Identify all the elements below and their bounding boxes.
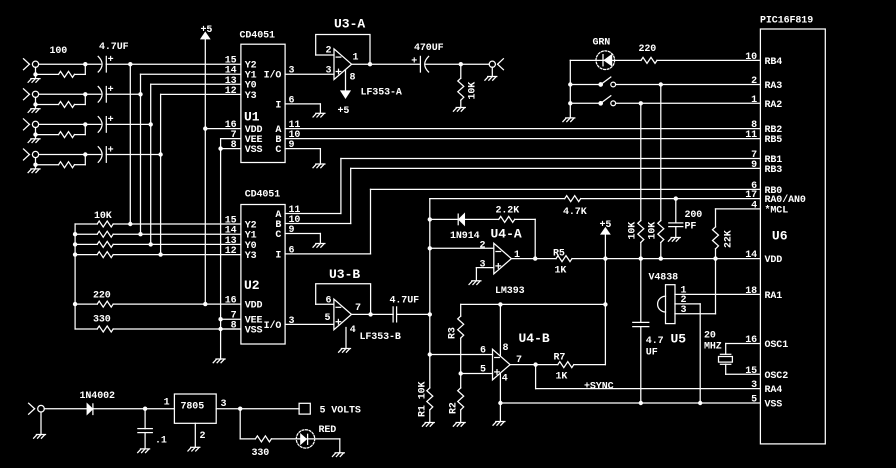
- capacitor 4.7UF input (row 3): [98, 115, 113, 132]
- wire row3 elbow to U1 Y0: [151, 83, 241, 85]
- node +SYNC tap: [533, 362, 537, 366]
- svg-text:U4-A: U4-A: [491, 227, 522, 242]
- wire 7805 out: [216, 408, 299, 410]
- wire 10K pullup RA3 vertical: [660, 85, 662, 259]
- node S2 to 10K: [639, 101, 643, 105]
- svg-text:+: +: [411, 57, 417, 68]
- svg-text:1: 1: [514, 250, 520, 261]
- resistor R7 1K: [554, 352, 574, 367]
- wire U5 pin3 to VDD: [675, 259, 716, 314]
- svg-text:VSS: VSS: [765, 400, 783, 411]
- wire U1 VSS: [221, 148, 241, 150]
- ic U6 PIC16F819: [760, 16, 825, 444]
- wire 330 row: [75, 328, 241, 330]
- svg-text:16: 16: [225, 296, 237, 307]
- connector output jack: [489, 59, 503, 77]
- ground J1: [28, 79, 40, 83]
- node feedback at output: [533, 256, 537, 260]
- wire U2 VEE stub: [221, 318, 241, 320]
- LED RED: [296, 425, 336, 448]
- op-amp U4-A LM393: [491, 227, 525, 298]
- wire MCL to 22K: [716, 209, 761, 259]
- svg-text:RA0/AN0: RA0/AN0: [765, 194, 806, 206]
- resistor R2: [449, 388, 464, 414]
- svg-text:4.7UF: 4.7UF: [390, 296, 420, 307]
- svg-text:15: 15: [745, 366, 757, 377]
- wire central bus vertical: [429, 199, 431, 423]
- svg-text:5: 5: [480, 365, 486, 376]
- wire +SYNC to RA4: [536, 365, 761, 389]
- wire U4-B pin8 power: [499, 304, 501, 356]
- capacitor 4.7UF input (row 2): [98, 85, 113, 102]
- svg-text:12: 12: [225, 246, 237, 257]
- wire J3 sleeve down: [35, 128, 37, 139]
- svg-text:RA3: RA3: [765, 81, 783, 92]
- svg-text:RB4: RB4: [765, 57, 783, 68]
- svg-text:14: 14: [745, 250, 757, 261]
- svg-text:LF353-B: LF353-B: [360, 332, 401, 343]
- node 10K bottom 2 at VDD rail: [659, 256, 663, 260]
- capacitor 4.7UF input (row 1): [98, 55, 113, 72]
- svg-text:1N914: 1N914: [450, 231, 480, 242]
- node 200PF tap: [674, 196, 678, 200]
- LED GRN: [593, 38, 615, 70]
- svg-text:3: 3: [289, 316, 295, 327]
- power +5 arrow top: [201, 25, 213, 304]
- svg-text:R1 10K: R1 10K: [418, 381, 429, 417]
- svg-text:10K: 10K: [648, 222, 659, 240]
- terminal 5 VOLTS: [299, 403, 361, 416]
- wire OSC2: [726, 364, 761, 374]
- node J4 shunt junction: [33, 163, 37, 167]
- svg-text:RB5: RB5: [765, 135, 783, 146]
- svg-text:4: 4: [502, 374, 508, 385]
- node rail junction: [73, 242, 77, 246]
- wire U4-A pin3 + ground stub: [476, 268, 493, 281]
- ground power jack: [34, 435, 46, 439]
- svg-text:LF353-A: LF353-A: [361, 88, 402, 99]
- svg-text:3: 3: [326, 66, 332, 77]
- wire U2 VSS stub: [221, 328, 241, 330]
- node pin8 at pullup wire: [498, 302, 502, 306]
- svg-text:VDD: VDD: [765, 255, 783, 266]
- wire row3 vertical: [150, 84, 152, 244]
- resistor 10K ladder 2: [97, 231, 113, 237]
- wire row4 elbow to U1 Y3: [161, 93, 241, 95]
- svg-text:UF: UF: [646, 348, 658, 359]
- wire J2 junction down to resistor row: [84, 94, 86, 104]
- capacitor 4.7 UF bypass: [633, 322, 664, 358]
- wire 220 row: [75, 303, 241, 305]
- capacitor 200PF: [669, 210, 703, 233]
- svg-text:RA1: RA1: [765, 291, 783, 302]
- node ladder row 1: [128, 222, 132, 226]
- svg-text:1N4002: 1N4002: [80, 391, 116, 402]
- svg-text:U6: U6: [772, 229, 788, 244]
- svg-text:U2: U2: [244, 278, 260, 293]
- resistor 100 (row 2): [59, 102, 75, 108]
- ground R2: [453, 423, 465, 427]
- wire to RED led: [240, 409, 340, 439]
- svg-text:1: 1: [751, 95, 757, 106]
- wire J1 tip to cap: [39, 63, 101, 65]
- svg-text:I/O: I/O: [264, 320, 282, 332]
- svg-text:220: 220: [93, 291, 111, 302]
- svg-text:3: 3: [289, 66, 295, 77]
- wire U4-B output: [510, 364, 605, 366]
- crystal 20MHZ: [704, 331, 732, 365]
- resistor 4.7K: [563, 196, 587, 218]
- wire cap to vertical (row 3): [106, 123, 150, 125]
- capacitor 4.7UF input (row 4): [98, 145, 113, 162]
- node +5 at U2 VDD (220 junction): [203, 302, 207, 306]
- svg-text:2: 2: [326, 46, 332, 57]
- wire GRN rail: [570, 60, 641, 118]
- node +5 at U4-B pullup wire: [603, 302, 607, 306]
- svg-text:6: 6: [480, 346, 486, 357]
- svg-text:10: 10: [745, 52, 757, 63]
- capacitor 470UF output: [411, 43, 443, 72]
- pin numbers U6: [745, 52, 757, 406]
- node S1 to 10K: [659, 82, 663, 86]
- svg-text:VSS: VSS: [245, 325, 263, 336]
- power +5 arrow mid: [600, 220, 612, 365]
- svg-text:+5: +5: [338, 106, 350, 117]
- pin numbers U2 right: [289, 205, 301, 327]
- wire row2 vertical: [140, 74, 142, 234]
- resistor 330 (U2 VSS): [93, 315, 113, 333]
- svg-text:8: 8: [350, 72, 356, 83]
- svg-text:MHZ: MHZ: [704, 342, 722, 353]
- diode 1N4002: [80, 391, 116, 415]
- resistor 10K pullup (RA2): [628, 221, 644, 243]
- connector J4 input jack: [24, 149, 39, 160]
- node pin4 at VSS wire: [498, 401, 502, 405]
- wire J2 sleeve down: [35, 97, 37, 108]
- svg-text:10K: 10K: [94, 211, 112, 222]
- svg-text:U1: U1: [244, 110, 260, 125]
- node row 4 tap: [158, 152, 162, 156]
- wire U4-A pin2: [430, 247, 494, 249]
- resistor 220 (U2 VDD): [93, 291, 113, 308]
- svg-text:R7: R7: [554, 352, 566, 363]
- node J2 main junction: [83, 92, 87, 96]
- wire to RA0/AN0: [430, 198, 761, 200]
- wire U2 I/O to U3-B pin5: [285, 323, 334, 325]
- node J3 shunt junction: [33, 132, 37, 136]
- ground U4-A pin 3: [469, 281, 481, 285]
- ground U2 pin C: [313, 244, 325, 248]
- svg-text:2.2K: 2.2K: [496, 206, 520, 217]
- svg-text:1: 1: [164, 398, 170, 409]
- node U4-A pin2 tap: [428, 246, 432, 250]
- node VSS U1 junction: [218, 146, 222, 150]
- node 10K tap: [459, 62, 463, 66]
- ground J2: [28, 109, 40, 113]
- node rail RA2: [568, 101, 572, 105]
- svg-text:2: 2: [480, 240, 486, 251]
- node row 1 tap: [128, 62, 132, 66]
- wire U3-A feedback loop: [316, 35, 370, 65]
- wire shunt resistor row 2: [36, 104, 86, 106]
- switch S1 (RA3): [570, 77, 760, 87]
- svg-text:RED: RED: [319, 425, 337, 436]
- ground R1: [422, 423, 434, 427]
- resistor 330 (RED): [252, 436, 272, 459]
- svg-text:220: 220: [639, 44, 657, 55]
- node rail at 220 row: [73, 302, 77, 306]
- wire VSS to ground: [220, 329, 222, 359]
- svg-text:VDD: VDD: [245, 301, 263, 312]
- svg-text:OSC1: OSC1: [765, 340, 789, 351]
- svg-text:I/O: I/O: [264, 70, 282, 82]
- svg-text:PF: PF: [685, 222, 697, 233]
- wire U3-B pin4 down: [345, 328, 347, 349]
- svg-text:RB3: RB3: [765, 165, 783, 176]
- wire U3-B output to cap: [352, 313, 394, 315]
- svg-text:RA2: RA2: [765, 100, 783, 111]
- wire 10K stub: [460, 64, 462, 107]
- resistor 220 (RB4): [639, 44, 658, 63]
- wire U2 B to RB3: [285, 168, 760, 223]
- wire U2 A to RB1: [285, 159, 760, 214]
- resistor 10K output load: [458, 78, 479, 100]
- resistor 100 (row 1): [50, 46, 75, 77]
- connector J1 input jack: [24, 59, 39, 70]
- node rail junction: [73, 252, 77, 256]
- ic U5 V4838 IR receiver: [649, 273, 687, 347]
- svg-text:9: 9: [289, 140, 295, 151]
- wire J1 sleeve down: [35, 67, 37, 78]
- node 10K bottom at VDD rail: [639, 256, 643, 260]
- wire row1 down to ladder: [129, 64, 131, 224]
- node 22K at VDD rail: [713, 256, 717, 260]
- svg-text:RA4: RA4: [765, 385, 783, 396]
- wire U3-A output: [352, 63, 421, 65]
- svg-text:6: 6: [289, 95, 295, 106]
- node J3 main junction: [83, 122, 87, 126]
- node VEE U2 junction: [218, 317, 222, 321]
- wire row4 vertical: [160, 94, 162, 254]
- svg-text:6: 6: [326, 296, 332, 307]
- wire shunt resistor row 4: [36, 164, 86, 166]
- svg-text:2: 2: [751, 76, 757, 87]
- svg-text:10K: 10K: [468, 82, 479, 100]
- svg-text:8: 8: [231, 321, 237, 332]
- wire U2 C to ground: [285, 234, 320, 244]
- resistor R1 10K: [418, 381, 433, 417]
- wire cap to vertical (row 4): [106, 154, 160, 156]
- svg-text:PIC16F819: PIC16F819: [760, 16, 813, 27]
- svg-text:1: 1: [353, 53, 359, 64]
- pin numbers U1 right: [289, 66, 301, 151]
- pin numbers U1 left: [225, 56, 237, 151]
- svg-text:200: 200: [685, 210, 703, 221]
- svg-text:1K: 1K: [555, 266, 567, 277]
- node U4-B input junction: [428, 312, 432, 316]
- resistor 10K ladder 1: [94, 211, 113, 227]
- svg-text:LM393: LM393: [495, 286, 525, 297]
- wire R2 chain: [460, 374, 462, 423]
- ground U1 pin I: [313, 113, 325, 117]
- op-amp U3-B LF353: [329, 267, 401, 343]
- svg-text:7: 7: [355, 303, 361, 314]
- svg-text:4: 4: [350, 325, 356, 336]
- wire U5 pin1 to RA1: [675, 293, 760, 295]
- node +5 at VDD rail: [603, 256, 607, 260]
- power +5 arrow at U3-A pin 8: [338, 70, 350, 117]
- svg-text:7: 7: [516, 355, 522, 366]
- svg-text:11: 11: [745, 130, 757, 141]
- ground 200PF: [668, 238, 680, 242]
- wire U1 VEE elbow: [221, 139, 241, 329]
- wire ladder row 1: [75, 223, 241, 225]
- node U5 pin2 at VSS: [698, 401, 702, 405]
- switch S2 (RA2): [570, 96, 760, 106]
- wire J2 tip to cap: [39, 93, 101, 95]
- svg-text:5: 5: [325, 313, 331, 324]
- ground U4-B pin 4: [493, 422, 505, 426]
- wire jack to diode: [44, 408, 87, 410]
- svg-text:R2: R2: [449, 402, 460, 414]
- svg-text:R3: R3: [448, 327, 459, 339]
- svg-text:OSC2: OSC2: [765, 371, 789, 382]
- node J1 shunt junction: [33, 72, 37, 76]
- node J4 main junction: [83, 152, 87, 156]
- svg-text:I: I: [275, 250, 281, 261]
- ground J3: [28, 139, 40, 143]
- wire bypass cap vertical: [640, 259, 642, 403]
- wire U1 I/O to U3-A pin3: [285, 73, 334, 75]
- svg-text:3: 3: [480, 259, 486, 270]
- wire J3 junction down to resistor row: [84, 124, 86, 134]
- capacitor 4.7UF coupling: [390, 296, 420, 322]
- connector J3 input jack: [24, 119, 39, 130]
- wire 10K pullup RA2 vertical: [640, 103, 642, 258]
- svg-text:4: 4: [751, 200, 757, 211]
- svg-text:C: C: [275, 145, 281, 156]
- svg-text:3: 3: [681, 305, 687, 316]
- connector power jack: [29, 403, 45, 434]
- svg-text:18: 18: [745, 286, 757, 297]
- svg-text:V4838: V4838: [649, 273, 679, 284]
- wire 470UF to out jack: [425, 63, 489, 65]
- svg-text:8: 8: [503, 343, 509, 354]
- svg-text:.1: .1: [155, 436, 167, 447]
- node ladder row 4: [158, 252, 162, 256]
- svg-text:8: 8: [231, 140, 237, 151]
- node U3-B output junction: [368, 312, 372, 316]
- op-amp U3-A LF353: [334, 17, 402, 99]
- svg-text:330: 330: [93, 315, 111, 326]
- wire left rail: [74, 224, 76, 329]
- wire diode to 7805: [93, 408, 174, 410]
- wire ladder row 4: [75, 254, 241, 256]
- wire U2 I to RB0: [285, 189, 760, 254]
- node U4-B pin6 tap: [428, 352, 432, 356]
- svg-text:*MCL: *MCL: [765, 205, 789, 217]
- wire ladder row 3: [75, 243, 241, 245]
- ground switch rail: [563, 118, 575, 122]
- svg-text:CD4051: CD4051: [240, 31, 276, 42]
- capacitor .1: [138, 429, 167, 447]
- node ladder row 3: [149, 242, 153, 246]
- wire ladder row 2: [75, 233, 241, 235]
- svg-text:C: C: [275, 230, 281, 241]
- ground 10K output: [453, 108, 465, 112]
- svg-text:100: 100: [50, 46, 68, 57]
- wire U4-B pin6: [430, 354, 493, 356]
- wire RED to ground: [339, 439, 341, 453]
- wire VSS rail: [500, 402, 760, 404]
- resistor 10K ladder 3: [97, 241, 113, 247]
- regulator 7805: [174, 394, 216, 423]
- svg-text:7805: 7805: [181, 402, 205, 413]
- op-amp U4-B LM393: [493, 331, 550, 380]
- node U4-B pin5: [459, 371, 463, 375]
- svg-text:GRN: GRN: [593, 38, 611, 49]
- node 4.7UF at VSS: [639, 401, 643, 405]
- svg-text:10K: 10K: [628, 222, 639, 240]
- op U2 CD4051 multiplexer: [241, 190, 285, 345]
- svg-text:5 VOLTS: 5 VOLTS: [320, 406, 361, 417]
- svg-text:I: I: [275, 100, 281, 111]
- svg-text:4.7UF: 4.7UF: [99, 42, 129, 53]
- svg-text:VSS: VSS: [245, 145, 263, 156]
- node U3-A output junction: [368, 62, 372, 66]
- svg-text:470UF: 470UF: [414, 43, 444, 54]
- resistor 10K ladder 4: [97, 252, 113, 258]
- svg-text:CD4051: CD4051: [245, 190, 281, 201]
- svg-text:16: 16: [745, 335, 757, 346]
- svg-text:4.7K: 4.7K: [563, 207, 587, 218]
- svg-text:Y3: Y3: [245, 91, 257, 102]
- wire feedback: [430, 219, 535, 258]
- resistor 2.2K: [496, 206, 520, 223]
- node row 2 tap: [138, 92, 142, 96]
- node +5 at U1 VDD: [203, 126, 207, 130]
- ground U3-B pin 4: [339, 349, 351, 353]
- ground RED led: [332, 453, 344, 457]
- wire U4-B pin5: [461, 373, 493, 375]
- svg-text:5: 5: [751, 395, 757, 406]
- svg-text:U3-B: U3-B: [329, 267, 360, 282]
- wire shunt resistor row 1: [36, 73, 86, 75]
- svg-text:1K: 1K: [556, 372, 568, 383]
- wire U4-B pullup top: [461, 303, 606, 305]
- svg-text:330: 330: [252, 448, 270, 459]
- svg-text:12: 12: [225, 86, 237, 97]
- wire cap to vertical (row 1): [106, 63, 130, 65]
- resistor 10K pullup (RA3): [648, 221, 664, 243]
- wire U1 VDD: [205, 128, 241, 130]
- wire U1 B to RB5: [285, 138, 760, 140]
- resistor R5 1K: [553, 248, 572, 261]
- resistor 100 (row 4): [59, 162, 75, 168]
- node VSS U2 junction: [218, 327, 222, 331]
- wire row2 elbow to U1 Y1: [141, 73, 241, 75]
- ground J4: [28, 169, 40, 173]
- svg-text:R5: R5: [553, 248, 565, 259]
- wire U1 A to RB2: [285, 128, 760, 130]
- svg-text:22K: 22K: [724, 230, 735, 248]
- svg-text:3: 3: [751, 380, 757, 391]
- svg-text:4.7: 4.7: [646, 336, 664, 347]
- wire U1 I to ground: [285, 104, 320, 113]
- svg-text:U5: U5: [671, 332, 687, 347]
- resistor 100 (row 3): [59, 132, 75, 138]
- resistor R3: [448, 316, 464, 339]
